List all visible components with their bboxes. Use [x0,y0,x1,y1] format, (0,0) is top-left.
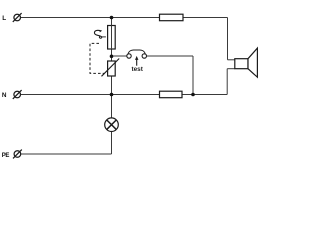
svg-text:N: N [2,92,7,99]
svg-text:test: test [132,66,144,73]
svg-text:PE: PE [2,153,10,159]
svg-text:L: L [2,15,6,22]
